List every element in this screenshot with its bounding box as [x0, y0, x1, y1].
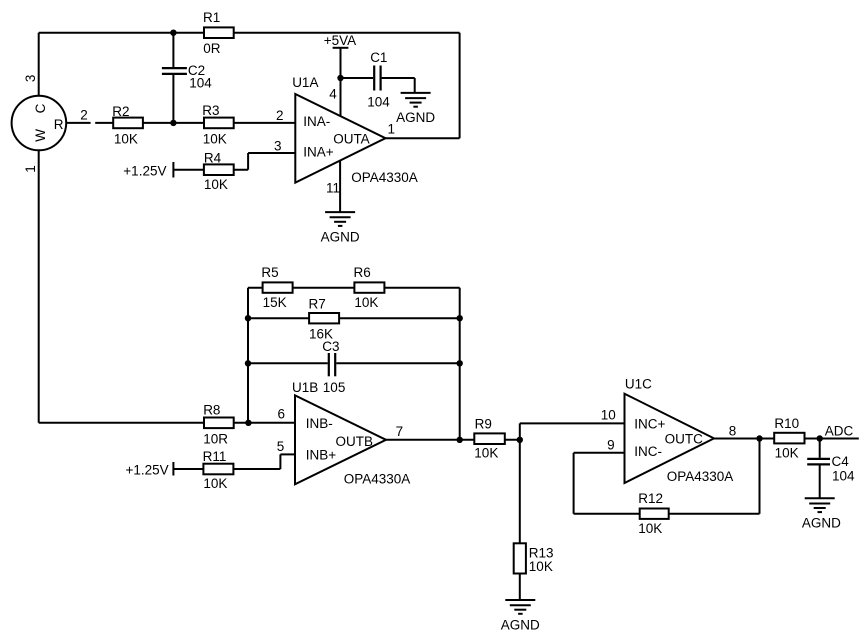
svg-text:8: 8 [729, 424, 737, 439]
svg-text:INC-: INC- [634, 444, 662, 459]
junction node OUTC / R12 [756, 435, 762, 441]
svg-text:7: 7 [396, 424, 404, 439]
svg-text:C: C [33, 103, 48, 113]
junction node left rail / C3 [245, 360, 251, 366]
wire C2 top leg [172, 33, 174, 67]
resistor R2 body [113, 118, 143, 129]
svg-text:W: W [33, 129, 48, 142]
svg-text:10K: 10K [114, 131, 138, 146]
svg-text:3: 3 [274, 139, 282, 154]
junction node right rail / OUTB [457, 437, 463, 443]
wire net OUTA-FB: right vertical of feedback loop [459, 33, 461, 139]
svg-text:6: 6 [277, 407, 285, 422]
power tick +5VA bar [333, 47, 349, 49]
svg-text:10K: 10K [775, 445, 799, 460]
svg-text:5: 5 [277, 439, 285, 454]
svg-text:OPA4330A: OPA4330A [344, 472, 411, 487]
capacitor C3 plates [328, 353, 330, 376]
svg-text:3: 3 [23, 75, 38, 83]
wire R12 row [574, 513, 760, 515]
svg-text:OUTC: OUTC [665, 431, 703, 446]
svg-text:ADC: ADC [825, 423, 854, 438]
svg-text:+1.25V: +1.25V [126, 462, 169, 477]
wire R13 bottom to AGND [519, 574, 521, 601]
wire sensor pin2 stub [66, 122, 91, 124]
svg-text:10: 10 [601, 407, 616, 422]
wire INC- vertical down [573, 453, 575, 514]
wire INB+ horizontal [280, 453, 295, 455]
wire node between R2 R3 and into INA- [95, 122, 295, 124]
wire net R1-TOP: top horizontal rail [39, 32, 460, 34]
resistor R5 body [263, 282, 293, 292]
svg-text:0R: 0R [203, 41, 221, 56]
svg-text:OUTA: OUTA [333, 132, 370, 147]
svg-text:9: 9 [607, 437, 615, 452]
capacitor C2 plates [162, 67, 187, 69]
wire INA+ horizontal [248, 152, 295, 154]
svg-text:AGND: AGND [501, 617, 540, 632]
wire R12 right leg up to OUTC [759, 439, 761, 514]
sensor MIC1 body circle [12, 96, 67, 151]
svg-text:INB-: INB- [306, 416, 333, 431]
svg-text:10K: 10K [204, 177, 228, 192]
svg-text:2: 2 [80, 107, 88, 122]
op-amp U1B triangle [295, 395, 386, 484]
resistor R9 body [474, 433, 505, 444]
resistor R12 body [640, 509, 669, 519]
wire +1.25V to R11 row [173, 468, 280, 470]
svg-text:R6: R6 [354, 265, 371, 280]
capacitor C1 plates [373, 66, 375, 91]
resistor R3 body [204, 118, 234, 129]
junction node R1/C2 top [170, 30, 176, 36]
svg-text:U1A: U1A [292, 75, 318, 90]
resistor R11 body [203, 464, 233, 475]
svg-text:C3: C3 [322, 339, 339, 354]
svg-text:2: 2 [276, 108, 284, 123]
svg-text:R2: R2 [112, 104, 129, 119]
ground AGND symbol (C4) [805, 498, 835, 512]
wire feedback-block right rail [459, 288, 461, 440]
svg-text:AGND: AGND [396, 110, 435, 125]
svg-text:OPA4330A: OPA4330A [351, 170, 418, 185]
resistor R1 body [204, 27, 234, 38]
wire C2 bottom leg to R2/R3 node [172, 75, 174, 123]
svg-text:10K: 10K [203, 131, 227, 146]
svg-text:15K: 15K [263, 295, 287, 310]
svg-text:R8: R8 [203, 403, 220, 418]
svg-text:R11: R11 [203, 449, 227, 464]
wire OUTC output row through R10 to ADC [714, 438, 859, 440]
wire C4 top leg [819, 439, 821, 458]
wire U1A pin11 to AGND [339, 160, 341, 212]
svg-text:104: 104 [832, 469, 855, 484]
svg-text:R4: R4 [204, 150, 222, 165]
svg-text:AGND: AGND [802, 516, 841, 531]
resistor R8 body [204, 418, 234, 429]
svg-text:11: 11 [326, 181, 340, 196]
svg-text:U1C: U1C [625, 377, 652, 392]
wire C4 bottom leg to AGND [819, 466, 821, 499]
junction node +5VA/C1 [337, 75, 343, 81]
wire OUTA output horizontal [386, 137, 460, 139]
junction node right rail / R7 [457, 315, 463, 321]
power tick +1.25V (R11) [172, 462, 174, 476]
svg-text:INB+: INB+ [306, 448, 337, 463]
svg-text:105: 105 [323, 380, 346, 395]
svg-text:C4: C4 [832, 454, 850, 469]
wire R9 node up [519, 423, 521, 439]
resistor R4 body [204, 164, 234, 175]
svg-text:+1.25V: +1.25V [123, 163, 166, 178]
junction node R9 / R13 / INC+ [517, 437, 523, 443]
svg-text:AGND: AGND [321, 229, 360, 244]
op-amp U1C triangle [625, 394, 715, 483]
resistor R13 body (vertical) [514, 543, 526, 573]
svg-text:10K: 10K [203, 476, 227, 491]
svg-text:INC+: INC+ [634, 416, 665, 431]
ground AGND symbol (R13) [505, 600, 535, 614]
svg-text:R7: R7 [309, 296, 326, 311]
svg-text:R5: R5 [261, 265, 278, 280]
svg-text:INA-: INA- [303, 114, 330, 129]
svg-text:1: 1 [388, 121, 396, 136]
wire INC+ horizontal [520, 422, 625, 424]
svg-text:C1: C1 [370, 50, 387, 65]
svg-text:10R: 10R [203, 432, 228, 447]
svg-text:10K: 10K [474, 445, 498, 460]
svg-text:OUTB: OUTB [336, 434, 374, 449]
wire C1 left leg [341, 77, 374, 79]
wire R8 row into INB- [39, 422, 295, 424]
svg-text:INA+: INA+ [303, 145, 334, 160]
junction node R2/R3/C2 [170, 120, 176, 126]
op-amp U1A triangle [295, 94, 385, 183]
junction node left rail / R7 [245, 315, 251, 321]
svg-text:+5VA: +5VA [324, 33, 356, 48]
svg-text:U1B: U1B [292, 380, 318, 395]
capacitor C4 plates [807, 458, 830, 460]
svg-text:4: 4 [329, 86, 337, 101]
wire OUTB output row through R9 [386, 439, 520, 441]
svg-text:R1: R1 [203, 10, 220, 25]
resistor R10 body [774, 433, 804, 444]
svg-text:R: R [54, 117, 64, 132]
wire R5/R6 top row [248, 287, 460, 289]
svg-text:R9: R9 [475, 416, 492, 431]
svg-text:104: 104 [367, 94, 390, 109]
wire C3 row right leg [336, 362, 459, 364]
wire INC- stub [574, 452, 625, 454]
svg-text:10K: 10K [529, 559, 553, 574]
wire R7 row [248, 317, 460, 319]
resistor R6 body [354, 282, 384, 292]
wire +5VA vertical to U1A pin4 [340, 48, 342, 116]
svg-text:OPA4330A: OPA4330A [667, 469, 734, 484]
wire C1 down to AGND [414, 78, 416, 93]
svg-text:10K: 10K [354, 295, 378, 310]
wire +1.25V to R4 row [173, 169, 248, 171]
resistor R7 body [309, 313, 339, 323]
junction node ADC / C4 [817, 435, 823, 441]
svg-text:104: 104 [189, 76, 212, 91]
junction node R8 / left rail [245, 420, 251, 426]
ground AGND symbol (U1A pin11) [325, 212, 355, 226]
svg-text:R12: R12 [638, 491, 663, 506]
wire R11 step vertical [279, 454, 281, 469]
svg-text:10K: 10K [638, 521, 662, 536]
wire sensor pin1 long vertical [38, 150, 40, 423]
wire R9 node down to R13 [519, 440, 521, 544]
wire R4 step vertical [247, 153, 249, 170]
power tick +1.25V (R4) [172, 162, 174, 178]
svg-text:R10: R10 [774, 416, 799, 431]
wire feedback-block left rail [247, 288, 249, 423]
wire C1 right leg [382, 77, 415, 79]
wire C3 row left leg [248, 362, 328, 364]
wire net SENSOR-TOP: sensor pin3 vertical up [38, 33, 40, 96]
svg-text:1: 1 [23, 165, 38, 173]
ground AGND symbol (C1) [401, 93, 431, 107]
junction node right rail / C3 [457, 360, 463, 366]
svg-text:R3: R3 [202, 103, 219, 118]
